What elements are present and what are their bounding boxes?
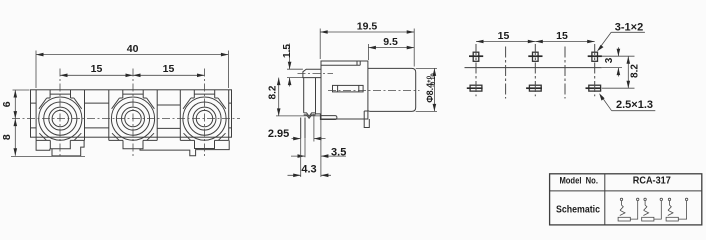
solder boss bbox=[320, 116, 337, 120]
dimension 1.5 bbox=[282, 44, 303, 87]
pin column 3 bbox=[586, 44, 602, 96]
svg-text:3: 3 bbox=[604, 57, 615, 63]
svg-text:8.2: 8.2 bbox=[629, 64, 640, 78]
svg-text:8: 8 bbox=[1, 134, 13, 140]
dimension 3 bbox=[602, 47, 635, 76]
mid centerline b bbox=[564, 47, 566, 99]
dimension 4.3 bbox=[288, 138, 332, 177]
barrel bbox=[368, 68, 416, 111]
label 3-1x2 with leader bbox=[597, 22, 645, 52]
dimension 9.5 bbox=[368, 36, 414, 60]
svg-text:Schematic: Schematic bbox=[556, 204, 600, 215]
dimension 2.95 bbox=[268, 128, 326, 141]
dimension 15 right (bottom view) bbox=[535, 30, 594, 44]
dimension 6 bbox=[1, 90, 29, 119]
barrel centerline bbox=[328, 90, 420, 92]
jack unit 3 circles bbox=[183, 97, 226, 140]
dimension 15 right bbox=[133, 63, 205, 77]
jack unit 1 circles bbox=[39, 97, 82, 140]
schematic symbol 1 bbox=[618, 198, 639, 221]
svg-text:RCA-317: RCA-317 bbox=[633, 176, 671, 187]
lug centerline bbox=[298, 72, 334, 74]
svg-text:3-1×2: 3-1×2 bbox=[615, 22, 643, 34]
svg-text:Model No.: Model No. bbox=[559, 176, 598, 187]
strain V-notch bbox=[304, 113, 321, 118]
table frame bbox=[550, 174, 702, 225]
svg-text:40: 40 bbox=[127, 43, 139, 55]
bottom step block under unit1 left bbox=[36, 140, 50, 150]
dimension 15 left bbox=[60, 63, 133, 77]
contact slot bbox=[333, 85, 364, 92]
web line upper bbox=[31, 103, 232, 105]
dimension 3.5 bbox=[291, 120, 346, 178]
svg-text:15: 15 bbox=[163, 63, 175, 75]
leg rear edge bbox=[313, 114, 315, 142]
svg-text:6: 6 bbox=[1, 101, 13, 107]
dimension 40 bbox=[36, 43, 228, 88]
svg-text:2.5×1.3: 2.5×1.3 bbox=[616, 99, 653, 111]
svg-text:2.95: 2.95 bbox=[268, 128, 289, 140]
unit 2 vertical centerline bbox=[132, 69, 134, 158]
label 2.5x1.3 with leader bbox=[599, 93, 655, 111]
jack unit 3 body bbox=[180, 90, 228, 149]
body main rectangle bbox=[31, 90, 232, 137]
unit 1 vertical centerline bbox=[59, 69, 61, 158]
bottom strip and feet under units 2-3 bbox=[140, 140, 229, 155]
svg-text:1.5: 1.5 bbox=[282, 44, 293, 58]
svg-text:15: 15 bbox=[91, 63, 103, 75]
schematic symbol 2 bbox=[642, 198, 663, 221]
mounting foot under unit1 bbox=[52, 140, 84, 156]
dimension phi 8.4 bbox=[416, 68, 437, 111]
mounting lug bbox=[303, 69, 321, 77]
svg-text:15: 15 bbox=[498, 30, 510, 42]
schematic symbol 3 bbox=[666, 198, 688, 221]
mid centerline a bbox=[505, 47, 507, 99]
svg-text:3.5: 3.5 bbox=[331, 146, 346, 158]
svg-text:19.5: 19.5 bbox=[357, 21, 378, 33]
pcb leg bbox=[301, 118, 305, 139]
side body block bbox=[321, 61, 368, 119]
svg-text:4.3: 4.3 bbox=[301, 163, 316, 175]
unit 3 vertical centerline bbox=[204, 69, 206, 158]
base line bbox=[465, 67, 602, 69]
dimension 19.5 bbox=[320, 21, 414, 67]
web line lower bbox=[31, 127, 232, 129]
dimension 8.2 side bbox=[267, 78, 320, 116]
svg-text:9.5: 9.5 bbox=[383, 36, 398, 48]
pin column 2 bbox=[526, 44, 542, 96]
jack unit 2 body bbox=[109, 90, 157, 149]
body bottom and foot bbox=[321, 111, 369, 128]
pin column 1 bbox=[467, 44, 483, 96]
svg-text:8.2: 8.2 bbox=[267, 85, 278, 99]
dimension 15 left (bottom view) bbox=[476, 30, 535, 44]
top plate line bbox=[321, 61, 360, 65]
front column bbox=[304, 78, 316, 113]
jack unit 1 body bbox=[36, 90, 84, 149]
dimension 8.2 (bottom view) bbox=[602, 56, 640, 88]
dimension 8 bbox=[1, 119, 85, 157]
svg-text:15: 15 bbox=[556, 30, 568, 42]
jack unit 2 circles bbox=[111, 97, 154, 140]
front view horizontal centerline bbox=[12, 118, 240, 120]
